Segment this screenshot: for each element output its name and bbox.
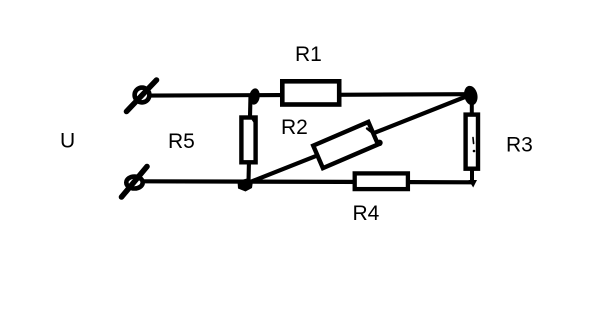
node C (junction top right) bbox=[462, 85, 479, 107]
svg-text:R4: R4 bbox=[353, 202, 380, 225]
svg-text:R5: R5 bbox=[168, 130, 195, 153]
wire diagonal (node B to node C through R2) bbox=[247, 95, 471, 184]
svg-text:R3: R3 bbox=[506, 134, 533, 157]
resistor R2 (rotated) bbox=[313, 122, 378, 168]
svg-text:R1: R1 bbox=[295, 43, 322, 66]
terminal T1 (top left, circle with slash) bbox=[127, 80, 157, 112]
resistor R4 bbox=[355, 173, 408, 189]
wire bottom (terminal T2 to bottom-right corner) bbox=[143, 181, 473, 182]
artifact tick inside R2 right end bbox=[367, 129, 374, 134]
wire top (terminal T1 to node C) bbox=[150, 94, 467, 95]
wire R3 top lead bbox=[470, 98, 474, 115]
artifact tick inside R5 bbox=[253, 120, 255, 123]
svg-text:R2: R2 bbox=[281, 116, 308, 139]
node A (junction of R5 top with top wire) bbox=[248, 88, 261, 106]
artifact marks inside R3 bbox=[472, 138, 475, 144]
wire R3 bottom lead bbox=[470, 168, 474, 183]
resistor R3 bbox=[466, 115, 478, 169]
artifact arrowhead at bottom-right corner bbox=[469, 180, 478, 188]
artifact dot at R2 right corner bbox=[376, 140, 382, 146]
svg-text:U: U bbox=[60, 130, 75, 153]
resistor R1 bbox=[282, 81, 339, 104]
terminal T2 (bottom left, circle with slash) bbox=[122, 167, 148, 198]
resistor R5 bbox=[241, 118, 255, 163]
wire R5 vertical lead bbox=[249, 95, 251, 182]
node B (junction bottom left) bbox=[238, 179, 254, 192]
